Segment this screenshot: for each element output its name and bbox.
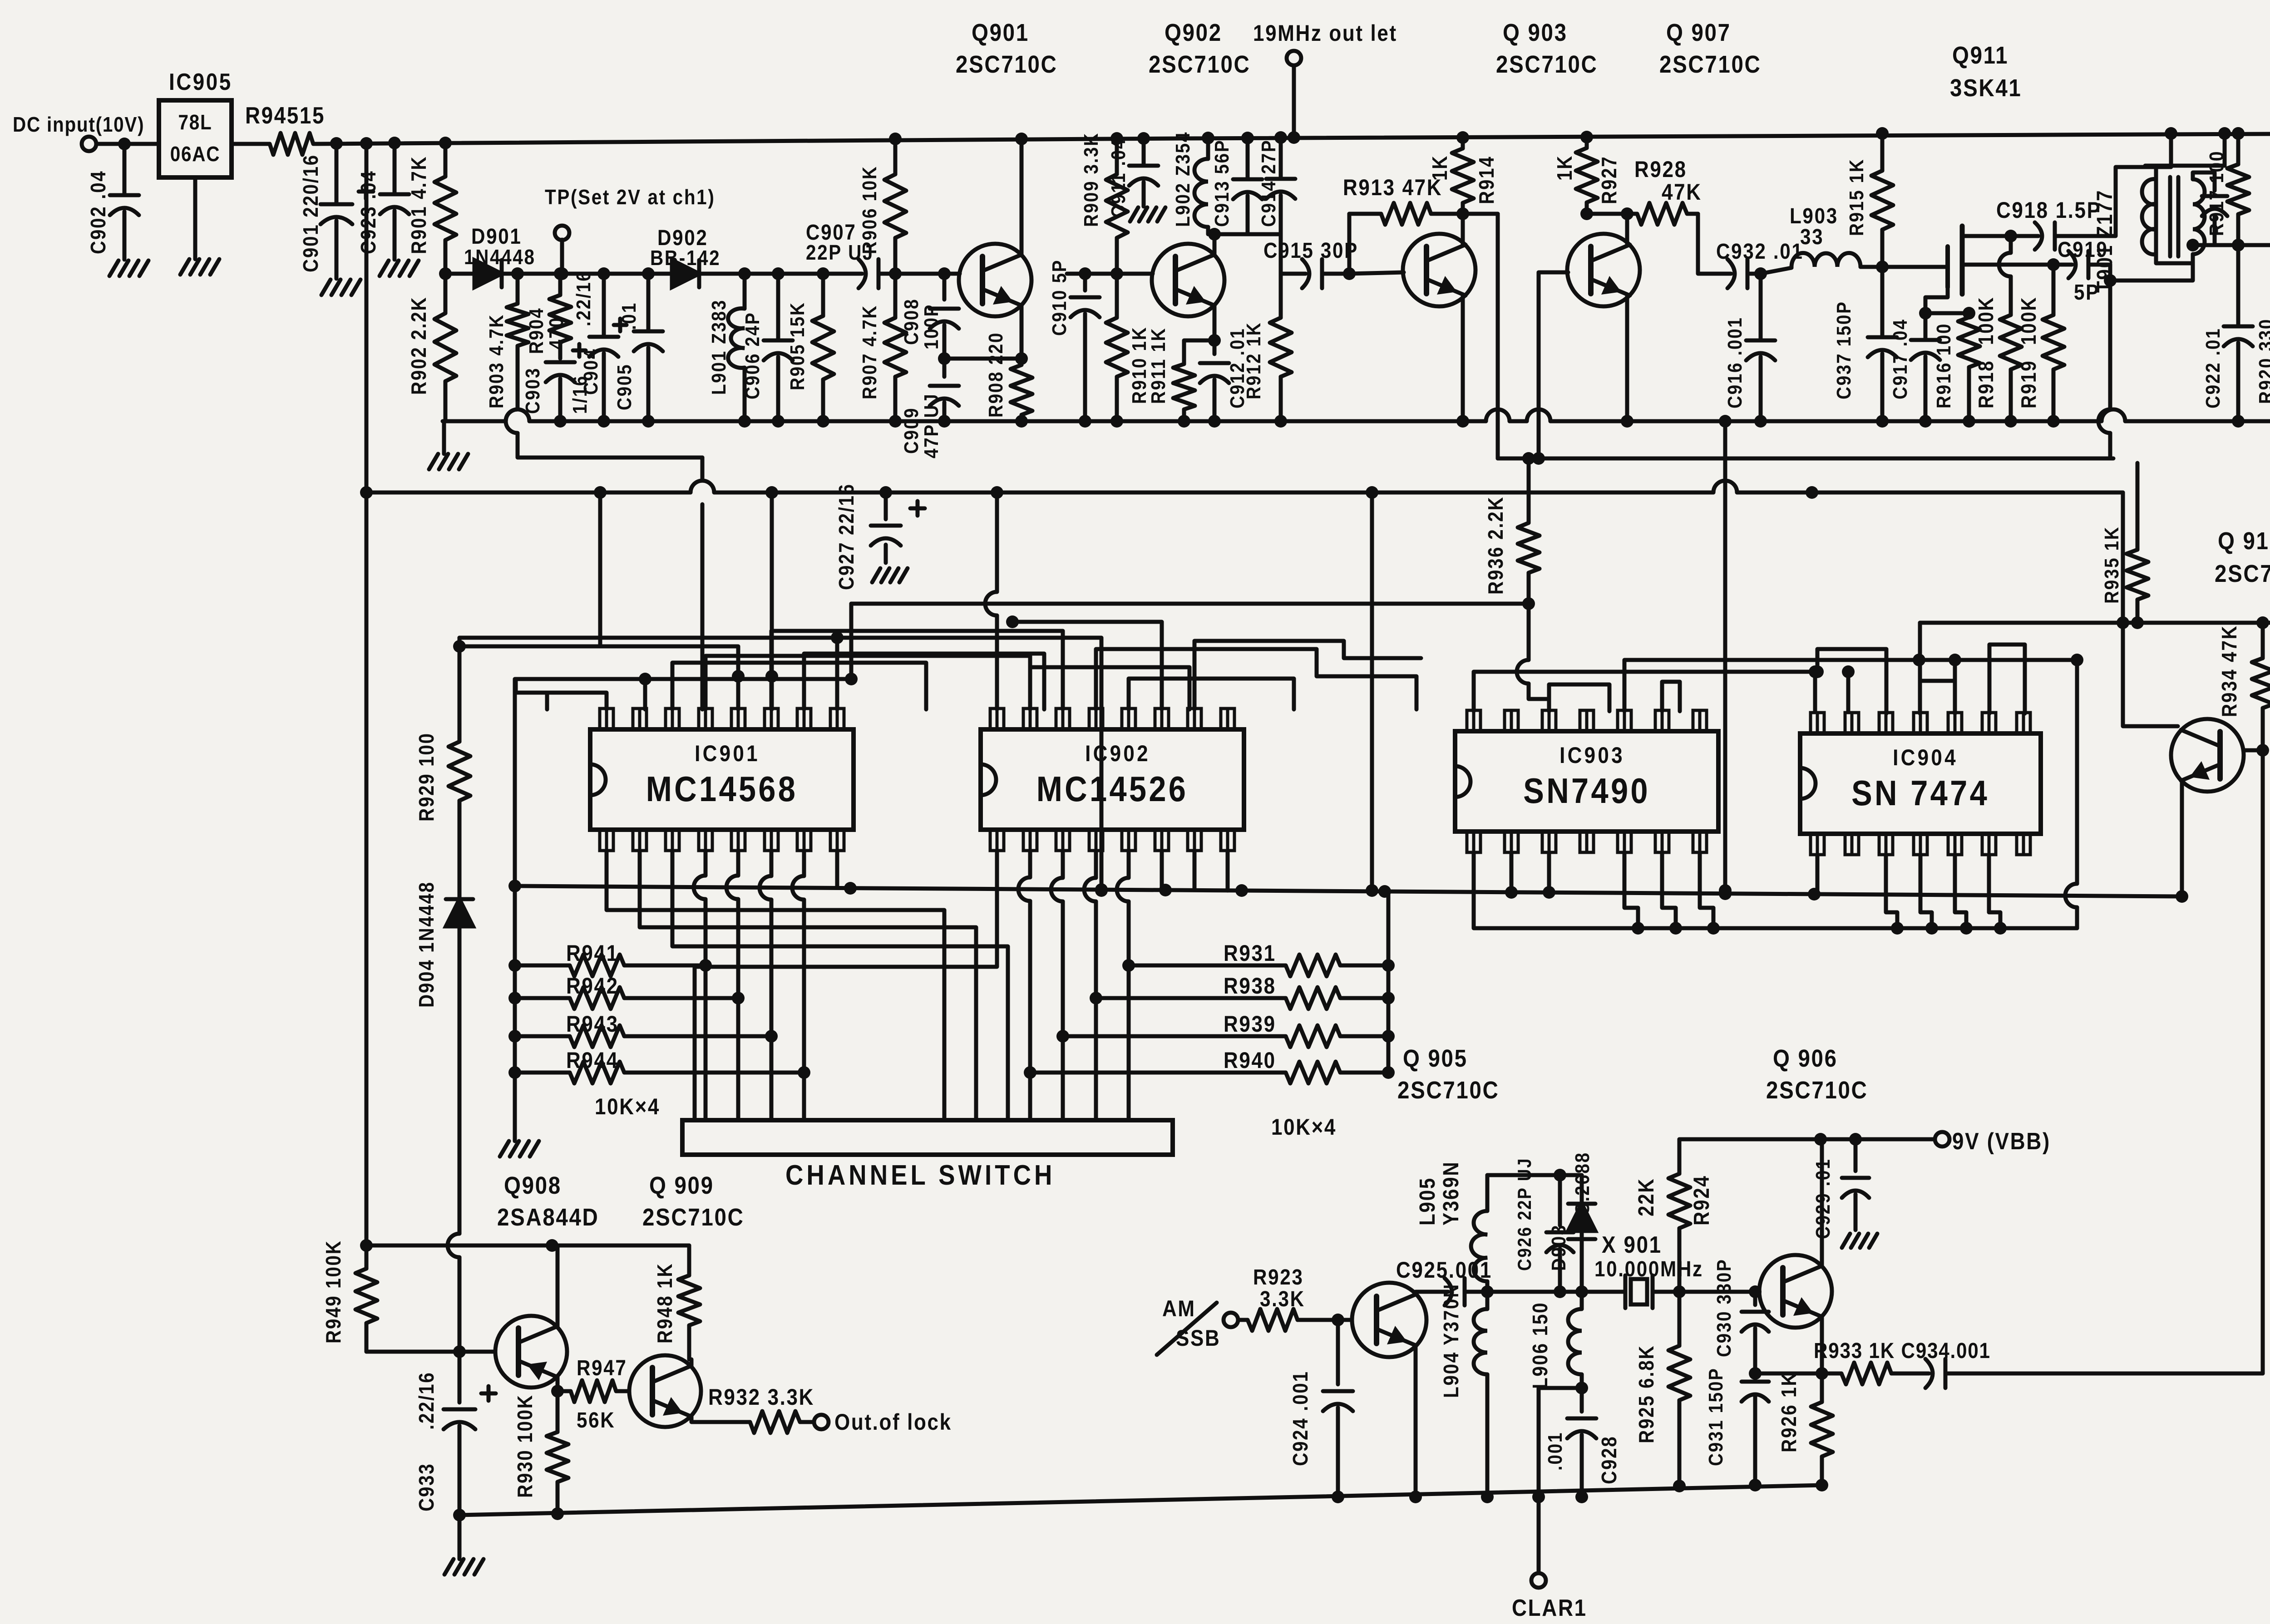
resistor R915 xyxy=(1845,127,1893,267)
wire signal xyxy=(1487,1285,1614,1298)
IC U903 xyxy=(1455,710,1718,852)
wire xyxy=(985,492,997,709)
svg-text:D903: D903 xyxy=(1547,1224,1570,1271)
resistor R910 xyxy=(1106,274,1150,421)
wire FET drain xyxy=(1962,230,2017,242)
wire PLL vertical A xyxy=(1496,214,1500,458)
svg-text:D901: D901 xyxy=(471,224,522,248)
wire xyxy=(232,142,265,146)
svg-text:470: 470 xyxy=(545,316,567,349)
wire PLL line drop xyxy=(701,458,705,481)
wire R903 to PLL line xyxy=(506,409,702,458)
resistor R938 xyxy=(1096,973,1395,1009)
resistor R933 xyxy=(1814,1338,1991,1384)
resistor R916 xyxy=(1932,313,1980,428)
wire long right vertical xyxy=(2261,750,2265,1373)
svg-text:C932 .01: C932 .01 xyxy=(1716,239,1804,263)
transistor Q905 xyxy=(1352,1283,1426,1357)
wire xyxy=(96,142,159,146)
node AM/SSB terminal xyxy=(1224,1313,1238,1327)
wire xyxy=(1624,654,1925,711)
svg-text:Out.of lock: Out.of lock xyxy=(834,1409,952,1434)
resistor R914 xyxy=(1429,131,1499,214)
wire top rail xyxy=(318,133,2270,144)
svg-text:R919: R919 xyxy=(2018,360,2041,408)
svg-text:X 901: X 901 xyxy=(1602,1232,1662,1258)
wire C918 feed xyxy=(2011,234,2026,238)
wire mid bus xyxy=(515,886,2182,896)
svg-text:C911 .04: C911 .04 xyxy=(1107,138,1130,218)
svg-text:C927 22/16: C927 22/16 xyxy=(835,483,859,590)
resistor R909 xyxy=(1080,132,1128,274)
resistor R935 xyxy=(2100,463,2148,629)
wire xyxy=(804,654,1044,709)
wire R93x right column xyxy=(1387,891,1391,1073)
resistor R949 xyxy=(322,1240,377,1352)
wire xyxy=(1811,649,1886,714)
capacitor C927 xyxy=(835,483,925,590)
wire CLAR1 branch xyxy=(1532,1388,1582,1503)
wire xyxy=(845,604,858,685)
IC U901 xyxy=(590,709,854,851)
capacitor C906 xyxy=(741,274,793,421)
resistor R928 xyxy=(1626,156,1702,225)
svg-text:C913 56P: C913 56P xyxy=(1210,139,1233,227)
ground xyxy=(1842,1234,1877,1248)
svg-text:47K: 47K xyxy=(1662,179,1702,204)
svg-text:C917 .04: C917 .04 xyxy=(1889,319,1911,399)
wire xyxy=(1160,851,1164,890)
inductor L901 xyxy=(707,274,745,421)
ground xyxy=(500,1141,539,1156)
svg-text:.22/16: .22/16 xyxy=(572,271,595,326)
capacitor C937 xyxy=(1832,267,1897,428)
svg-text:C909: C909 xyxy=(900,407,923,454)
wire bus1 xyxy=(443,409,2270,421)
wire xyxy=(607,851,944,1120)
junction bus1 xyxy=(1110,415,1123,428)
capacitor C904 xyxy=(572,271,627,421)
svg-text:2SC710C: 2SC710C xyxy=(1766,1076,1868,1104)
wire xyxy=(1279,234,1283,274)
junction xyxy=(889,267,902,280)
svg-text:R935 1K: R935 1K xyxy=(2100,526,2123,604)
resistor R930 xyxy=(514,1391,568,1514)
svg-text:R918: R918 xyxy=(1975,360,1998,408)
wire emitter Q901 xyxy=(1015,305,1028,365)
svg-text:.22/16: .22/16 xyxy=(415,1372,439,1430)
svg-text:R931: R931 xyxy=(1224,940,1276,965)
svg-text:L906 150: L906 150 xyxy=(1529,1302,1552,1389)
wire xyxy=(1989,645,2025,714)
resistor R919 xyxy=(2018,265,2064,421)
wire emitter Q908 xyxy=(556,1245,560,1326)
wire xyxy=(672,851,1008,1120)
svg-text:100K: 100K xyxy=(1975,296,1998,345)
wire base Q906 xyxy=(1679,1285,1762,1298)
svg-text:10K×4: 10K×4 xyxy=(595,1093,660,1119)
transistor Q908 xyxy=(495,1171,599,1388)
svg-text:R948 1K: R948 1K xyxy=(654,1263,677,1343)
svg-text:R926 1K: R926 1K xyxy=(1778,1372,1801,1452)
svg-text:1K: 1K xyxy=(1429,155,1452,181)
wire base Q910 xyxy=(2244,744,2269,757)
svg-text:100K: 100K xyxy=(2018,296,2041,345)
capacitor C928 xyxy=(1544,1418,1621,1497)
ground xyxy=(109,261,148,276)
wire C919 out xyxy=(2098,265,2110,458)
svg-text:Q 906: Q 906 xyxy=(1773,1044,1838,1072)
capacitor C929 xyxy=(1811,1139,1869,1239)
wire collector Q908 xyxy=(551,1377,564,1398)
svg-text:L902 Z354: L902 Z354 xyxy=(1171,131,1194,227)
resistor R906 xyxy=(858,133,906,274)
svg-text:Q 907: Q 907 xyxy=(1666,19,1731,46)
wire base Q908 xyxy=(366,1345,495,1358)
wire xyxy=(1051,851,1069,1120)
svg-text:C930 330P: C930 330P xyxy=(1712,1259,1735,1357)
wire D904 hop xyxy=(448,1234,459,1257)
capacitor C924 xyxy=(1289,1320,1353,1497)
wire output xyxy=(1966,1372,2263,1376)
capacitor C913 xyxy=(1210,132,1262,234)
svg-text:MC14526: MC14526 xyxy=(1036,769,1189,809)
capacitor C915 xyxy=(1263,238,1358,288)
svg-text:C904: C904 xyxy=(579,348,602,395)
junction bus1 xyxy=(1015,415,1028,428)
wire emitter Q906 xyxy=(1820,1317,1824,1373)
resistor R904 xyxy=(525,274,571,359)
capacitor C922 xyxy=(2201,245,2253,421)
svg-text:C906 24P: C906 24P xyxy=(741,312,764,399)
wire xyxy=(1547,852,1551,892)
svg-text:Q911: Q911 xyxy=(1952,41,2008,69)
svg-text:10K×4: 10K×4 xyxy=(1271,1114,1337,1139)
svg-text:33: 33 xyxy=(1800,224,1824,249)
resistor R942 xyxy=(508,973,738,1009)
svg-text:R936 2.2K: R936 2.2K xyxy=(1485,496,1508,595)
svg-text:R940: R940 xyxy=(1224,1047,1276,1073)
wire xyxy=(1955,855,1973,935)
capacitor C902 xyxy=(87,144,139,260)
svg-text:C901 220/16: C901 220/16 xyxy=(300,154,323,272)
wire under903 xyxy=(1485,926,2077,930)
wire xyxy=(1920,681,1955,714)
svg-text:C926 22P UJ: C926 22P UJ xyxy=(1514,1157,1535,1271)
wire xyxy=(771,631,1063,709)
svg-text:C916 .001: C916 .001 xyxy=(1723,317,1746,408)
resistor R936 xyxy=(1485,452,1540,604)
svg-text:R938: R938 xyxy=(1224,973,1276,998)
svg-text:R909 3.3K: R909 3.3K xyxy=(1080,132,1102,227)
wire VBB line xyxy=(1679,1137,1935,1142)
capacitor C905 xyxy=(613,274,663,421)
svg-text:C933: C933 xyxy=(415,1463,439,1511)
junction bus1 xyxy=(1274,415,1287,428)
junction xyxy=(330,137,452,150)
wire xyxy=(1575,1382,1588,1412)
wire xyxy=(193,177,197,259)
wire xyxy=(835,851,839,888)
wire xyxy=(1096,649,1416,709)
wire xyxy=(2070,167,2156,236)
svg-text:R915 1K: R915 1K xyxy=(1845,158,1868,236)
wire base line Q902 xyxy=(1067,272,1153,276)
ground xyxy=(321,280,360,295)
capacitor C933 xyxy=(415,1257,496,1515)
wire xyxy=(1587,212,1626,216)
svg-text:IC902: IC902 xyxy=(1085,740,1150,766)
svg-text:2SC710C: 2SC710C xyxy=(1149,50,1251,78)
svg-text:78L: 78L xyxy=(178,111,212,134)
resistor R934 xyxy=(2218,623,2270,750)
capacitor C925 xyxy=(1396,1257,1492,1305)
wire line1372 xyxy=(1920,621,2270,625)
wire xyxy=(516,679,547,709)
svg-text:10.000MHz: 10.000MHz xyxy=(1594,1256,1703,1281)
wire collector Q903 xyxy=(1461,214,1465,245)
svg-text:3.3K: 3.3K xyxy=(1260,1286,1305,1311)
capacitor C931 xyxy=(1704,1368,1769,1485)
wire gate feed xyxy=(1882,265,1948,269)
wire xyxy=(1463,212,1498,216)
svg-text:DC input(10V): DC input(10V) xyxy=(13,113,144,137)
junction xyxy=(511,267,655,280)
junction xyxy=(738,267,829,280)
svg-text:CLAR1: CLAR1 xyxy=(1512,1595,1587,1621)
svg-text:Q901: Q901 xyxy=(972,19,1029,46)
svg-text:R913 47K: R913 47K xyxy=(1343,174,1442,200)
wire xyxy=(1662,682,1680,711)
node CLAR1 xyxy=(1512,1573,1587,1621)
wire xyxy=(1366,492,1378,897)
wire base Q903 xyxy=(1349,272,1404,274)
inductor L906 xyxy=(1529,1292,1582,1389)
wire xyxy=(118,138,131,150)
label 10Kx4 xyxy=(595,1093,660,1119)
svg-text:R908 220: R908 220 xyxy=(984,332,1007,418)
resistor R932 xyxy=(708,1384,814,1433)
wire xyxy=(1886,855,1904,935)
svg-text:D902: D902 xyxy=(657,225,708,250)
transistor Q903 xyxy=(1403,19,1598,306)
wire xyxy=(1018,851,1036,1120)
resistor R912 xyxy=(1242,274,1292,421)
wire xyxy=(1761,268,1791,274)
junction bus1 xyxy=(1178,415,1221,428)
resistor R901 xyxy=(408,143,456,274)
ground xyxy=(380,261,419,276)
svg-text:R914: R914 xyxy=(1475,156,1499,204)
junction bus1 xyxy=(2232,415,2270,428)
transistor Q907 xyxy=(1567,19,1762,306)
svg-text:MC14568: MC14568 xyxy=(646,769,798,809)
wire emitter Q909 xyxy=(691,1417,735,1422)
inductor L905 xyxy=(1415,1161,1487,1292)
wire xyxy=(732,670,745,709)
junction xyxy=(1814,1133,1862,1146)
capacitor C917 xyxy=(1889,313,1940,428)
wire bus3 xyxy=(366,481,2123,492)
wire xyxy=(699,272,848,276)
wire xyxy=(1698,214,1721,274)
svg-text:2SC710C: 2SC710C xyxy=(1496,50,1598,78)
wire L6 xyxy=(516,677,851,681)
svg-text:C914 27P: C914 27P xyxy=(1257,139,1280,227)
svg-text:R929 100: R929 100 xyxy=(415,732,439,822)
transistor Q906 xyxy=(1759,1044,1868,1328)
diode D903 varactor xyxy=(1547,1152,1595,1292)
wire R913 riser xyxy=(1347,214,1352,274)
svg-text:C937 150P: C937 150P xyxy=(1832,301,1855,399)
resistor R905 xyxy=(786,274,834,421)
wire collector Q904 xyxy=(2238,238,2270,245)
svg-text:R917 100: R917 100 xyxy=(2205,150,2228,236)
wire T901 top feed xyxy=(2156,127,2177,167)
transistor Q902 xyxy=(1149,19,1251,316)
svg-text:IC904: IC904 xyxy=(1893,744,1958,770)
wire L4 xyxy=(851,597,1535,610)
resistor R943 xyxy=(508,1011,771,1047)
wire T901 out xyxy=(2215,239,2245,251)
wire xyxy=(1816,855,1820,894)
svg-text:C931 150P: C931 150P xyxy=(1704,1368,1727,1466)
svg-text:R923: R923 xyxy=(1253,1265,1304,1289)
junction bus1 xyxy=(2004,415,2060,428)
svg-text:SSB: SSB xyxy=(1176,1325,1220,1350)
junction xyxy=(1456,207,1469,220)
inductor L903 xyxy=(1790,203,1860,267)
wire collector Q905 xyxy=(1416,1292,1428,1294)
svg-text:Q908: Q908 xyxy=(504,1171,562,1199)
svg-text:R94515: R94515 xyxy=(245,103,325,128)
wire xyxy=(1662,852,1682,935)
capacitor C910 xyxy=(1048,259,1100,428)
svg-text:C903: C903 xyxy=(521,367,544,414)
wire base xyxy=(1308,1318,1352,1322)
svg-text:R941: R941 xyxy=(566,940,619,965)
svg-text:R925 6.8K: R925 6.8K xyxy=(1635,1345,1658,1443)
svg-text:R920 330: R920 330 xyxy=(2255,318,2270,404)
wire bus2 xyxy=(1498,457,2113,461)
svg-text:L901 Z383: L901 Z383 xyxy=(707,299,730,395)
wire xyxy=(1474,852,1485,928)
wire xyxy=(1813,672,1817,711)
wire xyxy=(1006,615,1162,709)
junction xyxy=(1343,267,1356,280)
wire xyxy=(1860,261,1889,273)
label AM/SSB xyxy=(1157,1295,1220,1355)
junction base Q905 xyxy=(1332,1314,1344,1326)
resistor R940 xyxy=(1030,1047,1395,1083)
svg-text:IC903: IC903 xyxy=(1559,742,1625,768)
wire riser 4575 xyxy=(2065,654,2083,928)
resistor R925 xyxy=(1635,1292,1690,1485)
node DC input terminal xyxy=(13,113,144,151)
wire xyxy=(1949,654,1961,714)
svg-text:Q902: Q902 xyxy=(1165,19,1222,46)
wire tank bottom xyxy=(1208,227,1281,234)
wire bus3 end drop xyxy=(2117,492,2178,726)
resistor R911 xyxy=(1147,327,1214,421)
wire collector Q902 xyxy=(1208,228,1221,255)
svg-text:C922 .01: C922 .01 xyxy=(2201,328,2224,408)
capacitor C912 xyxy=(1200,328,1248,421)
svg-text:R939: R939 xyxy=(1224,1011,1276,1036)
switch CHANNEL SWITCH xyxy=(682,1120,1173,1191)
svg-text:R949 100K: R949 100K xyxy=(322,1240,345,1343)
wire xyxy=(1193,851,1197,890)
svg-text:Y369N: Y369N xyxy=(1438,1161,1463,1225)
capacitor C903 xyxy=(521,344,591,421)
wire left vertical xyxy=(365,143,369,1245)
wire xyxy=(1226,851,1230,891)
wire L3 xyxy=(459,638,1101,891)
wire bus1 ground stub xyxy=(442,421,446,454)
wire collector Q906 xyxy=(1820,1139,1824,1266)
wire FET source xyxy=(1962,258,2060,271)
wire xyxy=(760,851,778,1120)
svg-text:R934 47K: R934 47K xyxy=(2218,625,2241,717)
wire xyxy=(1700,852,1720,935)
svg-text:SN 7474: SN 7474 xyxy=(1851,773,1989,813)
wire xyxy=(672,663,926,709)
wire emitter Q902 xyxy=(1208,305,1221,347)
svg-text:C928: C928 xyxy=(1598,1436,1621,1484)
wire xyxy=(2223,133,2227,166)
IC U904 xyxy=(1800,713,2041,855)
svg-text:R932 3.3K: R932 3.3K xyxy=(708,1384,814,1409)
svg-text:.01: .01 xyxy=(617,302,640,330)
resistor R941 xyxy=(508,940,706,976)
wire y2744 xyxy=(360,1239,689,1252)
svg-text:C910 5P: C910 5P xyxy=(1048,259,1071,336)
wire CLAR1 stem xyxy=(1537,1497,1541,1573)
svg-text:Q 910: Q 910 xyxy=(2218,527,2270,555)
wire xyxy=(1919,658,2077,662)
svg-text:C907: C907 xyxy=(806,220,857,244)
capacitor C923 xyxy=(357,143,409,260)
IC U905 regulator xyxy=(159,69,232,177)
svg-text:2SC710C: 2SC710C xyxy=(1659,50,1762,78)
wire xyxy=(1549,684,1609,711)
node 9V VBB xyxy=(1935,1128,2051,1154)
wire xyxy=(1918,623,1922,714)
ground xyxy=(180,259,219,275)
ground xyxy=(429,454,468,469)
svg-text:R928: R928 xyxy=(1634,156,1687,182)
wire R918 drop xyxy=(1999,236,2011,313)
svg-text:D904 1N4448: D904 1N4448 xyxy=(415,881,439,1008)
resistor R929 xyxy=(415,638,470,823)
resistor R924 xyxy=(1633,1139,1713,1292)
svg-text:R924: R924 xyxy=(1689,1175,1713,1225)
svg-text:AM: AM xyxy=(1162,1295,1196,1321)
ground xyxy=(1130,207,1165,221)
svg-text:R912 1K: R912 1K xyxy=(1242,322,1265,399)
svg-text:L904 Y370N: L904 Y370N xyxy=(1440,1283,1463,1398)
diode D902 xyxy=(650,225,720,287)
wire xyxy=(706,656,1030,709)
svg-text:R916 100: R916 100 xyxy=(1932,323,1955,408)
svg-text:R933 1K C934.001: R933 1K C934.001 xyxy=(1814,1338,1991,1363)
svg-text:Q 905: Q 905 xyxy=(1403,1044,1468,1072)
wire xyxy=(1624,852,1644,935)
svg-text:R943: R943 xyxy=(566,1011,619,1036)
svg-text:R903 4.7K: R903 4.7K xyxy=(485,314,508,408)
resistor R931 xyxy=(1129,940,1395,976)
svg-text:3SK41: 3SK41 xyxy=(1950,74,2022,102)
